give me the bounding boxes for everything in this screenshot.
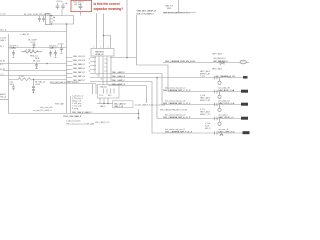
svg-text:EFFECT_B2: EFFECT_B2 <box>200 100 210 102</box>
svg-text:C210 1u: C210 1u <box>56 1 62 3</box>
svg-text:dml_camera_mipi_lane_f2: dml_camera_mipi_lane_f2 <box>165 128 185 131</box>
series element row3 <box>215 90 218 93</box>
series element row5 <box>215 117 218 120</box>
wire mid rail <box>9 47 67 49</box>
regulator box U4 <box>46 14 51 25</box>
wire mid row 3 to corner <box>108 82 243 134</box>
wire U1 bottom pin drop 2 <box>98 56 100 78</box>
svg-text:DML_DAT0_N: DML_DAT0_N <box>73 67 86 70</box>
svg-text:b_y: b_y <box>104 62 107 64</box>
svg-text:G2: G2 <box>51 19 53 21</box>
svg-text:R_PPL_21: R_PPL_21 <box>26 49 34 51</box>
ferrite FB row4 hang <box>219 105 221 109</box>
svg-text:V_CLK: V_CLK <box>0 14 7 16</box>
wire net A vertical <box>126 0 128 58</box>
svg-text:1 2 3 4: 1 2 3 4 <box>99 95 103 97</box>
node dot crystal top <box>33 92 34 93</box>
node dot mid rail 2 <box>33 47 35 49</box>
capacitor C5 pair <box>42 16 45 22</box>
wire left bus row 3 <box>0 75 67 77</box>
svg-text:DML_CAM1_P: DML_CAM1_P <box>112 71 126 74</box>
svg-text:X_21b: X_21b <box>200 95 205 97</box>
svg-text:CAM_C_18: CAM_C_18 <box>114 105 123 108</box>
svg-text:capacitor meaning?: capacitor meaning? <box>94 7 124 11</box>
ladder stub row1 left <box>67 57 97 59</box>
svg-text:DML_DAT1_N: DML_DAT1_N <box>73 75 86 78</box>
svg-text:Q_PD1: Q_PD1 <box>58 43 63 45</box>
component D4 extra cap <box>49 50 52 57</box>
diode D5 row1 <box>220 61 224 65</box>
capacitor C3 in red box <box>79 4 83 11</box>
ferrite FB row3 hang <box>219 92 221 96</box>
svg-text:a2: a2 <box>89 62 91 64</box>
wire rail drops <box>93 84 97 94</box>
svg-text:DML_CAMERA_MIPI_D_2L_X: DML_CAMERA_MIPI_D_2L_X <box>163 102 191 105</box>
svg-text:DML_CAM_IF_MAIN_X: DML_CAM_IF_MAIN_X <box>72 111 92 114</box>
node dot U1 branch <box>103 35 105 37</box>
wire top rail <box>0 16 74 25</box>
svg-text:FB10: FB10 <box>167 8 171 10</box>
wire right row 1 <box>163 62 240 64</box>
wire FB10 stub <box>163 12 196 14</box>
svg-text:net_DML_CAM_IF_X main_con_x21: net_DML_CAM_IF_X main_con_x21 B_2L <box>135 103 166 106</box>
svg-text:DML_CAM2_N: DML_CAM2_N <box>112 83 126 86</box>
wire inner column vertical <box>70 96 72 114</box>
svg-text:EFF_D: EFF_D <box>205 128 211 130</box>
option box K1 <box>113 101 134 108</box>
wire label rail mid <box>50 83 96 85</box>
wire left bus row 4 with resistor <box>9 79 67 81</box>
node dot connector line a <box>103 103 105 105</box>
wire U1 pin3 branch <box>104 36 111 49</box>
svg-text:O3: O3 <box>51 22 53 24</box>
svg-text:PWR_CAM: PWR_CAM <box>55 102 64 105</box>
ladder stub row2 <box>67 61 97 63</box>
svg-text:DML_CLK1_N: DML_CLK1_N <box>73 60 86 62</box>
node dot bus row1 <box>46 63 47 64</box>
svg-text:DMB_BLVDS_CAM_MIPI_X_Y0_2: DMB_BLVDS_CAM_MIPI_X_Y0_2 <box>163 12 190 15</box>
svg-text:DML_CAMERA_PWR_EN_1.8-4L: DML_CAMERA_PWR_EN_1.8-4L <box>165 60 196 63</box>
wire U1 bottom pin drop 3 <box>102 56 104 85</box>
svg-text:DMB_MLB_CAMIF_18: DMB_MLB_CAMIF_18 <box>137 10 157 13</box>
wire U1 bottom pin drop 1 <box>94 56 96 74</box>
svg-text:Is this the correct: Is this the correct <box>94 2 121 6</box>
wire left bus row 1 <box>0 63 67 65</box>
transistor Q1 <box>60 45 63 54</box>
svg-text:HELP_JACK: HELP_JACK <box>212 53 223 56</box>
connector pad P6 <box>243 131 250 134</box>
svg-text:CAM_CORE_X+D: CAM_CORE_X+D <box>218 130 235 133</box>
svg-text:a4: a4 <box>89 70 91 72</box>
svg-text:DML_CAMERA_MIPI_C_2L_X: DML_CAMERA_MIPI_C_2L_X <box>163 89 191 92</box>
svg-text:c6: c6 <box>101 78 103 80</box>
svg-text:see_right_PPL_x5664_21: see_right_PPL_x5664_21 <box>33 109 52 112</box>
wire mid row 1 to corner <box>90 74 241 105</box>
svg-text:B_xmap: B_xmap <box>72 108 78 110</box>
wire left bus row 2 <box>3 70 67 72</box>
capacitor C8 above mid rail <box>33 43 36 48</box>
connector pad P4 <box>241 103 248 106</box>
node dot top rail c <box>66 23 68 25</box>
wire connector J2 bottom pins <box>100 98 108 104</box>
svg-text:DML_CAM2_P: DML_CAM2_P <box>112 79 126 82</box>
capacitor C2 top <box>61 3 67 10</box>
capacitor C1 top <box>56 3 60 10</box>
ladder stub row5 <box>67 73 73 75</box>
wire U1 bottom pin drop 4 <box>106 56 108 85</box>
wire block right edge <box>66 24 68 114</box>
svg-text:C1608: C1608 <box>35 84 40 86</box>
svg-text:swire_used_x231: swire_used_x231 <box>40 107 53 109</box>
svg-text:DML_DAT1_P: DML_DAT1_P <box>73 71 86 74</box>
node dot mid rail 1 <box>13 47 15 49</box>
svg-text:DML_CAMERA_MIPI_E_2L_X: DML_CAMERA_MIPI_E_2L_X <box>163 116 191 119</box>
wire right row 2 <box>157 77 243 79</box>
svg-text:DML_DAT0_P: DML_DAT0_P <box>73 63 86 66</box>
svg-text:R220 1K: R220 1K <box>10 48 17 50</box>
ferrite FB row2 hang <box>219 78 221 82</box>
svg-text:DML_CAM_X2: DML_CAM_X2 <box>114 102 126 105</box>
wire mid row 2 to corner <box>95 78 241 119</box>
resistor R8 horizontal <box>22 51 42 54</box>
node dot top rail b <box>51 23 53 25</box>
wire J2 inner pins <box>104 89 115 94</box>
svg-text:DML_DAT2_P: DML_DAT2_P <box>73 79 86 82</box>
wire crystal drop <box>33 80 35 87</box>
node dot mid rail 3 <box>52 47 54 49</box>
ladder stub row3 <box>67 65 97 67</box>
wire net B vertical <box>136 15 138 58</box>
connector pad P3 <box>241 90 248 93</box>
crystal Y1 <box>32 87 35 91</box>
ferrite FB row6 hang <box>221 133 223 134</box>
svg-text:cam_core_x1: cam_core_x1 <box>218 128 228 131</box>
svg-text:DML_CAM1_N: DML_CAM1_N <box>112 75 126 78</box>
connector J2 box <box>98 85 120 99</box>
svg-text:T104 C_X: T104 C_X <box>49 48 57 50</box>
svg-text:DML_C: DML_C <box>100 106 107 108</box>
wire U1 pin1 vertical <box>96 14 98 49</box>
wire connector out line <box>97 103 113 105</box>
svg-text:+5V_CAMERA_A_12L: +5V_CAMERA_A_12L <box>215 75 236 78</box>
wire U1 bottom pin drop 5 <box>110 56 112 82</box>
wire cap C7 leg <box>13 84 15 87</box>
svg-text:R_4K7: R_4K7 <box>19 76 24 78</box>
svg-text:DML_CAMERA_MIPI_F_2L_X: DML_CAMERA_MIPI_F_2L_X <box>165 130 193 133</box>
svg-text:dml_camera_mipi_lane_e2: dml_camera_mipi_lane_e2 <box>165 113 185 116</box>
svg-text:ML_VDL: ML_VDL <box>33 61 41 63</box>
wire right row 3 <box>168 91 241 93</box>
connector pad P1 oval <box>240 60 246 64</box>
wire U1 pin2 vertical <box>103 14 105 49</box>
wire second rail <box>0 31 67 33</box>
node dot resistor R7 <box>33 79 34 80</box>
wire cap C6 drop <box>33 91 35 94</box>
svg-text:a3: a3 <box>89 66 91 68</box>
ladder stub row6 <box>67 77 96 79</box>
svg-text:CAM_L: CAM_L <box>0 39 6 42</box>
ladder stub row4 <box>67 69 97 71</box>
annotation red box <box>71 0 92 11</box>
connector pad P5 <box>241 117 248 120</box>
svg-text:X_21d: X_21d <box>205 123 210 125</box>
crystal Y2 under ML_VDL <box>35 63 38 69</box>
svg-text:U201A_X4: U201A_X4 <box>95 53 103 56</box>
series element row2 <box>215 76 218 79</box>
svg-text:dml_camera_mipi_lane_d2: dml_camera_mipi_lane_d2 <box>165 99 185 102</box>
svg-text:HELP_JACK: HELP_JACK <box>212 67 223 70</box>
capacitor C4 under top label <box>38 16 41 22</box>
svg-text:1_silkscreen_bottom: 1_silkscreen_bottom <box>66 120 81 123</box>
svg-text:CAM_DVDD_X+B: CAM_DVDD_X+B <box>218 102 235 105</box>
svg-text:DML_CAM_EXTRA_NET_5_ROW: DML_CAM_EXTRA_NET_5_ROW <box>160 108 187 111</box>
wire left gnd stub <box>0 99 9 101</box>
node dot connector line b <box>107 103 109 105</box>
wire arrow drop <box>138 109 140 118</box>
node dot top rail a <box>51 15 53 17</box>
component marks beside U4 <box>53 17 55 21</box>
svg-text:DML_camera_port_xxx_21 DML_C: DML_camera_port_xxx_21 DML_CAM <box>66 123 94 126</box>
svg-text:CAM_VDDIO_+C: CAM_VDDIO_+C <box>218 116 234 119</box>
svg-text:XDML_CAM_MAIN_IF: XDML_CAM_MAIN_IF <box>63 115 82 118</box>
svg-text:XMT6K21: XMT6K21 <box>95 51 105 53</box>
wire block bottom edge <box>9 113 139 115</box>
svg-text:EFFECT_C3: EFFECT_C3 <box>200 114 210 116</box>
svg-text:ML_VDDL_C1005_X5R_04 C13: ML_VDDL_C1005_X5R_04 C13 <box>24 14 49 16</box>
wire FB10 vertical <box>178 0 180 13</box>
svg-text:x_CAM_18: x_CAM_18 <box>20 33 29 36</box>
svg-text:CAM_AVDD_X+A: CAM_AVDD_X+A <box>218 89 235 92</box>
node dot corner row2 <box>156 77 157 78</box>
node dot net A junction <box>126 57 128 59</box>
svg-text:c5: c5 <box>97 74 99 76</box>
svg-text:B2B_CON_MAIN_X: B2B_CON_MAIN_X <box>137 13 155 16</box>
svg-text:FB1A_x21: FB1A_x21 <box>30 54 38 57</box>
resistor R7 zigzag <box>18 78 30 81</box>
svg-text:XTAL2021: XTAL2021 <box>100 86 108 89</box>
series element row6 <box>215 131 218 134</box>
series element row4 <box>215 103 218 106</box>
wire cap C3 leg <box>80 12 82 16</box>
ladder stub row7 <box>67 81 109 83</box>
svg-text:a1: a1 <box>89 58 91 60</box>
svg-text:LED_ANODE_K: LED_ANODE_K <box>213 57 227 60</box>
svg-text:DML_CAM_IO_18: DML_CAM_IO_18 <box>95 121 109 124</box>
connector pad P2 blob <box>243 76 248 79</box>
op-amp U1 box <box>91 49 114 57</box>
wire U1 output <box>110 58 168 92</box>
svg-text:DML_CLK1_P: DML_CLK1_P <box>73 56 86 58</box>
svg-text:X_21c: X_21c <box>200 109 205 111</box>
component D3 below text right <box>54 50 57 58</box>
svg-text:MLK_A: MLK_A <box>0 29 7 32</box>
svg-text:b_x: b_x <box>104 58 107 60</box>
wire right row 1 tail <box>247 62 250 64</box>
svg-text:dml_camera_mipi_lane_c2: dml_camera_mipi_lane_c2 <box>165 86 185 89</box>
arrow head bottom <box>137 118 139 120</box>
right side rows <box>160 53 230 131</box>
component D2 below text left <box>12 50 15 58</box>
capacitor C7 left <box>12 87 15 91</box>
svg-text:1.2V_C: 1.2V_C <box>30 42 36 44</box>
svg-text:X5R_0402: X5R_0402 <box>74 4 82 6</box>
node dot bottom edge <box>138 113 140 115</box>
ferrite FB row5 hang <box>219 119 221 123</box>
wire block left edge <box>8 34 10 114</box>
svg-text:V1: V1 <box>51 16 53 18</box>
wire mid row 4 to corner <box>108 86 147 104</box>
wire cap C2 leg to rail <box>61 10 63 16</box>
svg-text:b_z: b_z <box>104 66 107 68</box>
svg-text:GND_A: GND_A <box>0 96 7 99</box>
